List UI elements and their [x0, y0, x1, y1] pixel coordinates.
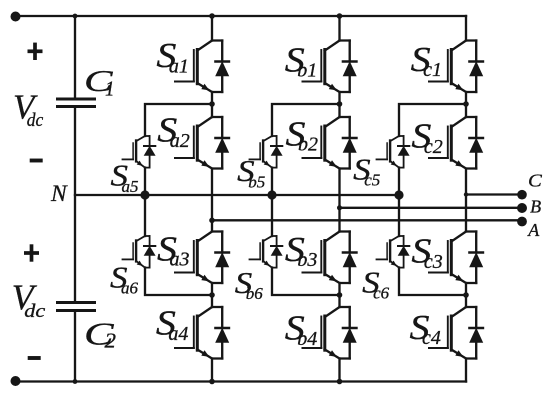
- svg-text:1: 1: [105, 77, 115, 101]
- svg-text:c5: c5: [364, 171, 380, 190]
- svg-text:b3: b3: [297, 249, 317, 271]
- svg-text:dc: dc: [27, 110, 44, 131]
- svg-text:B: B: [530, 197, 541, 217]
- svg-text:a4: a4: [168, 323, 188, 345]
- svg-text:dc: dc: [24, 301, 46, 322]
- svg-text:b5: b5: [248, 172, 265, 191]
- svg-text:c6: c6: [373, 284, 390, 303]
- svg-text:A: A: [527, 220, 540, 240]
- svg-text:b4: b4: [297, 328, 317, 350]
- svg-text:a3: a3: [170, 249, 190, 271]
- svg-text:C: C: [528, 171, 543, 191]
- svg-text:c1: c1: [423, 59, 442, 81]
- svg-text:N: N: [50, 181, 68, 207]
- svg-text:a6: a6: [121, 279, 139, 298]
- svg-text:c3: c3: [424, 251, 443, 273]
- svg-text:a5: a5: [122, 177, 139, 196]
- svg-text:c4: c4: [422, 327, 441, 349]
- svg-text:a1: a1: [169, 55, 189, 77]
- svg-text:b1: b1: [297, 60, 317, 82]
- svg-text:a2: a2: [170, 130, 190, 152]
- svg-text:c2: c2: [424, 136, 443, 158]
- svg-text:2: 2: [105, 329, 117, 353]
- svg-text:b6: b6: [246, 284, 263, 303]
- svg-text:b2: b2: [298, 134, 318, 156]
